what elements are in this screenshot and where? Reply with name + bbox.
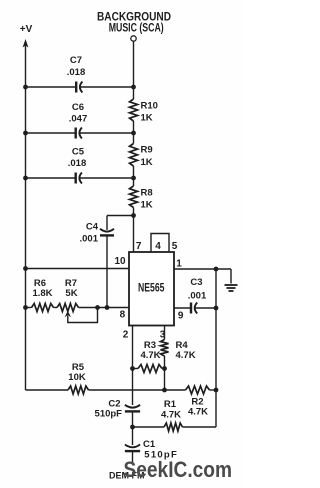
svg-text:C6: C6	[72, 102, 84, 113]
op-amp U1 NE565 PLL box	[129, 252, 174, 326]
capacitor C1	[125, 445, 140, 448]
capacitor C6	[74, 128, 76, 139]
resistor R5	[68, 386, 89, 394]
wire bottom line right + R2	[165, 389, 186, 391]
node junction C3/right rail	[214, 306, 219, 311]
wire R7 to pin8	[79, 307, 130, 309]
svg-text:4.7K: 4.7K	[161, 410, 181, 421]
node junction left rail / pin10 wire	[23, 266, 28, 271]
node junction left rail / C7	[23, 85, 28, 90]
svg-text:510pF: 510pF	[95, 409, 123, 420]
resistor R4	[161, 340, 169, 357]
capacitor C7	[75, 82, 77, 93]
svg-text:SeekIC.com: SeekIC.com	[124, 457, 233, 482]
resistor R10	[130, 99, 138, 121]
node junction C4/pin8	[105, 305, 110, 310]
capacitor C3	[190, 303, 192, 314]
resistor R8	[130, 186, 138, 208]
svg-text:.018: .018	[68, 158, 87, 169]
ground	[225, 284, 238, 286]
svg-text:5: 5	[172, 241, 178, 252]
wire C6 row	[26, 132, 76, 134]
potentiometer R7	[57, 304, 79, 312]
wire pin3 lead	[164, 326, 166, 340]
svg-text:MUSIC (SCA): MUSIC (SCA)	[109, 21, 164, 35]
wire pin10 to +V rail	[26, 268, 130, 270]
svg-text:R9: R9	[141, 145, 153, 156]
svg-text:1K: 1K	[141, 200, 153, 211]
power +V arrow	[23, 39, 29, 48]
svg-text:4.7K: 4.7K	[176, 350, 196, 361]
svg-text:4.7K: 4.7K	[140, 350, 160, 361]
resistor R6	[32, 304, 54, 312]
svg-text:NE565: NE565	[138, 283, 165, 295]
svg-text:C1: C1	[143, 439, 156, 450]
wire pin2 lead	[132, 326, 134, 406]
svg-text:4.7K: 4.7K	[188, 407, 208, 418]
wire pin9 row	[174, 307, 191, 309]
node junction VCO input / C4	[131, 213, 136, 218]
svg-text:4: 4	[155, 241, 161, 252]
capacitor C4	[100, 229, 114, 232]
svg-text:.047: .047	[69, 114, 88, 125]
resistor R9	[130, 144, 138, 167]
wire bottom line y390 left part	[26, 389, 69, 391]
svg-text:.001: .001	[80, 234, 99, 245]
wire R1 row	[133, 426, 165, 428]
wire R6-R7	[54, 307, 58, 309]
resistor R3	[133, 368, 139, 370]
wire C4 bottom lead	[106, 235, 108, 307]
wire C2 to R1 node	[132, 411, 134, 427]
wire R7 wiper	[65, 311, 71, 317]
svg-text:1K: 1K	[141, 113, 153, 124]
svg-text:5K: 5K	[65, 288, 77, 299]
wire C5 row	[26, 177, 76, 179]
svg-text:1.8K: 1.8K	[32, 288, 52, 299]
node junction R3/R4	[162, 366, 167, 371]
svg-text:R1: R1	[164, 399, 177, 410]
svg-text:8: 8	[120, 310, 126, 321]
svg-text:2: 2	[123, 330, 129, 341]
wire pin4-pin5 loop	[151, 234, 169, 253]
wire pin3 to bottom line	[164, 369, 166, 391]
wire pin7 stub	[133, 216, 135, 253]
svg-text:9: 9	[178, 311, 184, 322]
wire C4 top lead	[107, 215, 134, 217]
node junction rail/C6	[131, 131, 136, 136]
node junction left rail / C6	[23, 131, 28, 136]
resistor R1	[164, 423, 183, 431]
svg-text:+V: +V	[20, 24, 33, 35]
wire C7 row	[26, 86, 77, 88]
node junction pin2/R3	[130, 366, 135, 371]
node junction rail/C7	[131, 85, 136, 90]
wire SCA input rail	[133, 41, 135, 87]
node junction pin3/bottom line	[162, 388, 167, 393]
svg-text:10K: 10K	[68, 372, 86, 383]
wire right rail	[215, 269, 217, 427]
wire C1 bottom lead / output	[132, 451, 134, 463]
svg-text:R8: R8	[141, 188, 153, 199]
wire left +V rail	[25, 44, 27, 390]
wire pin8 row	[26, 307, 32, 309]
wire C1 top lead	[132, 427, 134, 445]
capacitor C2	[125, 405, 140, 408]
node junction R2/right rail	[214, 388, 219, 393]
svg-text:C4: C4	[86, 222, 99, 233]
svg-text:C5: C5	[72, 147, 85, 158]
svg-text:7: 7	[136, 241, 142, 252]
svg-text:.001: .001	[188, 291, 207, 302]
node junction wiper/pin8	[95, 305, 100, 310]
svg-text:.018: .018	[67, 67, 86, 78]
wire bottom line center	[89, 389, 165, 391]
terminal SCA input	[131, 36, 136, 41]
node junction rail/C5	[131, 176, 136, 181]
svg-text:1: 1	[176, 259, 182, 270]
wire pin1 to ground	[174, 268, 231, 270]
svg-text:10: 10	[114, 256, 126, 267]
svg-text:C3: C3	[190, 277, 202, 288]
svg-text:R10: R10	[141, 101, 158, 112]
node junction C2/R1	[130, 425, 135, 430]
resistor R2	[186, 386, 210, 394]
svg-text:1K: 1K	[141, 157, 153, 168]
node junction left rail / C5	[23, 176, 28, 181]
node junction pin1/right rail	[214, 267, 219, 272]
svg-text:C7: C7	[70, 55, 82, 66]
capacitor C5	[74, 173, 76, 184]
node junction left rail / R6 wire	[23, 305, 28, 310]
